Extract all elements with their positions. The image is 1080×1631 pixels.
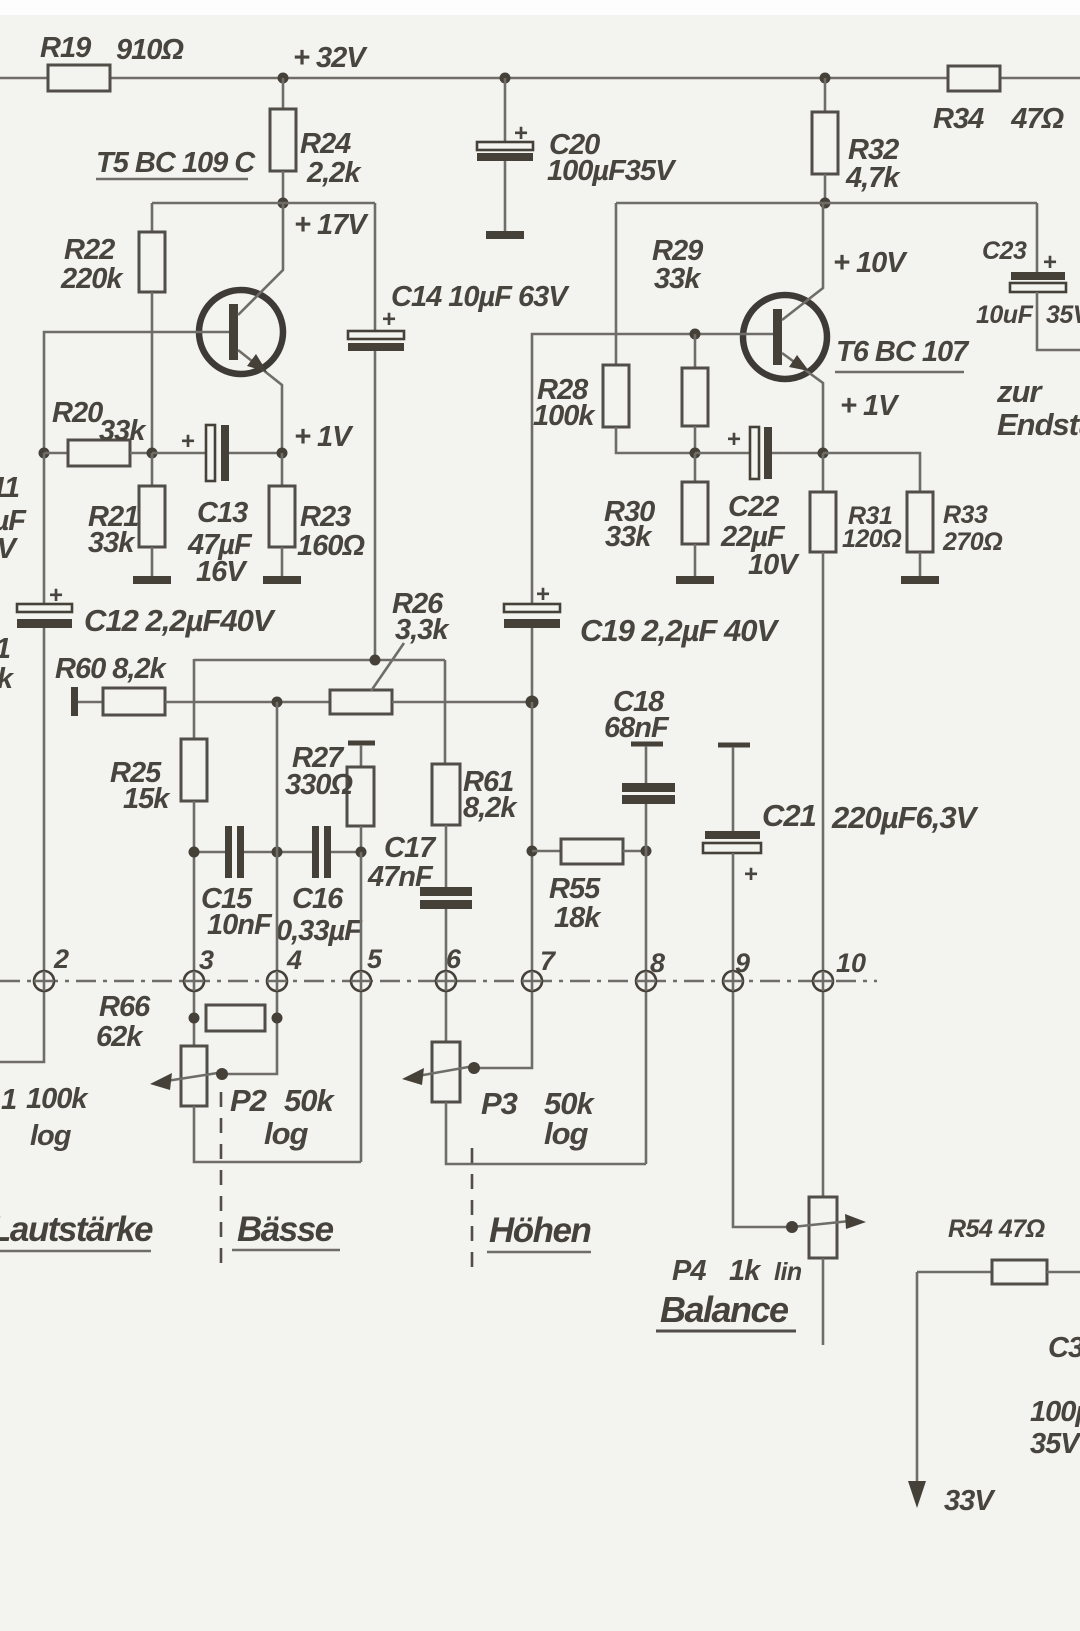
resistor R55 xyxy=(532,850,561,853)
node T6 base/R29 xyxy=(690,329,701,340)
ground R30 xyxy=(676,576,714,584)
resistor R23 xyxy=(281,453,284,486)
svg-text:270Ω: 270Ω xyxy=(942,528,1002,556)
svg-text:C23: C23 xyxy=(982,237,1027,265)
connector 10 xyxy=(813,971,833,991)
svg-text:100µ: 100µ xyxy=(1030,1396,1080,1428)
svg-text:R22: R22 xyxy=(64,234,115,266)
svg-text:+ 10V: + 10V xyxy=(833,247,908,279)
resistor R28 drop from +10V wire xyxy=(615,203,618,365)
svg-text:C32: C32 xyxy=(1048,1332,1080,1364)
wire tone main run xyxy=(165,701,330,704)
resistor R24 xyxy=(270,109,296,171)
node rail/C20 xyxy=(500,73,511,84)
wire C14 bottom long drop xyxy=(374,351,377,660)
node emitter +1V right xyxy=(818,448,829,459)
svg-text:+: + xyxy=(181,428,195,455)
svg-text:C14 10µF 63V: C14 10µF 63V xyxy=(391,281,570,313)
resistor R31 long drop to P4 xyxy=(822,453,825,492)
wire C15/C16 row xyxy=(194,851,361,854)
svg-text:T5 BC 109 C: T5 BC 109 C xyxy=(96,147,256,179)
node rail/R24 xyxy=(278,73,289,84)
svg-text:11: 11 xyxy=(0,472,19,504)
wire C12 down to P1 exit xyxy=(0,628,44,1062)
capacitor C21 xyxy=(732,747,735,831)
svg-text:33k: 33k xyxy=(605,521,653,553)
wire x277 drop to P2 wiper xyxy=(222,702,277,1074)
label R34 47ohm xyxy=(948,66,1000,91)
node C14/branch xyxy=(370,655,381,666)
resistor R25 xyxy=(181,739,207,801)
capacitor C20 xyxy=(504,78,507,143)
svg-text:10V: 10V xyxy=(748,549,800,581)
svg-text:R60 8,2k: R60 8,2k xyxy=(55,653,168,685)
mech dashed P3 xyxy=(471,1148,474,1272)
capacitor C18 xyxy=(645,746,648,783)
svg-text:C16: C16 xyxy=(292,883,344,915)
svg-text:50k: 50k xyxy=(284,1083,335,1118)
svg-text:35V: 35V xyxy=(1030,1428,1080,1460)
svg-text:+: + xyxy=(49,582,63,609)
terminal R60 input bar xyxy=(71,687,78,716)
svg-text:R19: R19 xyxy=(40,32,91,64)
capacitor C17 xyxy=(420,887,472,896)
wire R22 top stem xyxy=(151,203,154,232)
wire +10V horizontal xyxy=(616,202,1037,205)
svg-text:+ 1V: + 1V xyxy=(840,390,900,422)
svg-text:7: 7 xyxy=(540,946,557,976)
svg-text:33V: 33V xyxy=(944,1485,996,1517)
resistor R21 xyxy=(151,453,154,486)
svg-text:C13: C13 xyxy=(197,497,248,529)
svg-text:Endstufe: Endstufe xyxy=(997,407,1080,442)
svg-text:5: 5 xyxy=(367,944,383,974)
terminal C21 top bar xyxy=(718,743,750,748)
node +17V xyxy=(278,198,289,209)
svg-text:log: log xyxy=(30,1120,72,1152)
svg-text:33k: 33k xyxy=(88,527,136,559)
mech dashed P2 xyxy=(220,1092,223,1272)
terminal C18 top bar xyxy=(631,742,663,747)
node +10V xyxy=(820,198,831,209)
capacitor C16 xyxy=(312,826,319,878)
svg-text:2: 2 xyxy=(53,944,69,974)
wire C14 riser from +17V node xyxy=(374,203,377,333)
node main/x277 xyxy=(272,697,283,708)
node R66 left xyxy=(189,1013,200,1024)
connector 8 xyxy=(636,971,656,991)
svg-text:R20: R20 xyxy=(52,397,103,429)
resistor R66 xyxy=(206,1005,265,1031)
svg-text:R24: R24 xyxy=(300,128,351,160)
svg-text:C21: C21 xyxy=(762,798,816,833)
resistor R22 xyxy=(139,232,165,292)
connector 9 xyxy=(723,971,743,991)
resistor R27 xyxy=(360,745,363,767)
wire +32V main rail xyxy=(0,77,1080,80)
svg-text:zur: zur xyxy=(996,374,1043,409)
svg-text:T6 BC 107: T6 BC 107 xyxy=(836,336,970,368)
svg-text:8,2k: 8,2k xyxy=(463,792,518,824)
svg-text:10uF: 10uF xyxy=(976,301,1034,329)
svg-text:C22: C22 xyxy=(728,491,779,523)
wire R24 top stem xyxy=(282,78,285,109)
terminal R27 top bar xyxy=(348,741,375,746)
svg-text:100k: 100k xyxy=(26,1083,89,1115)
svg-text:6: 6 xyxy=(446,944,462,974)
svg-text:C19 2,2µF 40V: C19 2,2µF 40V xyxy=(580,613,779,648)
wire +17V node horizontal xyxy=(152,202,375,205)
wire upper branch y660 xyxy=(194,659,445,662)
svg-text:Balance: Balance xyxy=(660,1289,789,1330)
connector 4 xyxy=(267,971,287,991)
wire P2 bottom rail xyxy=(194,1106,361,1162)
svg-text:C17: C17 xyxy=(384,832,437,864)
svg-text:0,33µF: 0,33µF xyxy=(276,915,363,947)
svg-text:+ 17V: + 17V xyxy=(294,209,369,241)
svg-text:R66: R66 xyxy=(99,991,151,1023)
capacitor C15 xyxy=(225,826,232,878)
svg-text:Bässe: Bässe xyxy=(237,1210,334,1249)
transistor T6 xyxy=(743,203,827,453)
svg-text:100µF35V: 100µF35V xyxy=(547,155,677,187)
wire T6 base with C19 drop xyxy=(532,334,773,605)
svg-text:4,7k: 4,7k xyxy=(845,162,901,194)
potentiometer P3 xyxy=(432,1042,460,1102)
node R20/R21/C13 xyxy=(147,448,158,459)
svg-text:1: 1 xyxy=(0,633,10,665)
capacitor C19 xyxy=(504,604,560,612)
wire R24 bottom stem xyxy=(282,171,285,203)
svg-text:10nF: 10nF xyxy=(207,909,273,941)
resistor R20 xyxy=(44,452,68,455)
capacitor C14 xyxy=(348,331,404,339)
potentiometer P4 xyxy=(809,1197,837,1258)
wire x531 node drop xyxy=(474,702,532,1068)
ground C20 xyxy=(486,231,524,239)
svg-text:+ 1V: + 1V xyxy=(294,421,354,453)
capacitor C22 xyxy=(695,452,750,455)
svg-text:33k: 33k xyxy=(99,415,147,447)
svg-text:15k: 15k xyxy=(123,783,171,815)
node emitter row left xyxy=(690,448,701,459)
svg-text:P4: P4 xyxy=(672,1255,706,1287)
resistor R33 xyxy=(823,453,920,492)
svg-text:62k: 62k xyxy=(96,1021,144,1053)
connector 5 xyxy=(351,971,371,991)
wire node to C12 xyxy=(43,453,46,605)
svg-text:+: + xyxy=(744,861,758,888)
wire dash-dot connector line xyxy=(0,980,877,982)
capacitor C12 xyxy=(17,604,72,612)
svg-text:3: 3 xyxy=(199,945,214,975)
svg-text:R55: R55 xyxy=(549,873,601,905)
resistor R61 hanging from branch xyxy=(444,660,447,764)
svg-text:Höhen: Höhen xyxy=(489,1211,591,1250)
wire P3 bottom rail xyxy=(446,1102,646,1164)
svg-text:lin: lin xyxy=(774,1258,802,1286)
svg-text:log: log xyxy=(264,1116,309,1151)
wire x361 drop to P2 rail xyxy=(360,852,363,1162)
wire R22 bottom to emitter row xyxy=(151,292,154,453)
svg-text:16V: 16V xyxy=(196,556,248,588)
svg-text:+: + xyxy=(727,426,741,453)
connector 6 xyxy=(436,971,456,991)
svg-text:68nF: 68nF xyxy=(604,712,670,744)
svg-text:2,2k: 2,2k xyxy=(306,157,362,189)
svg-text:R23: R23 xyxy=(300,501,351,533)
capacitor C23 xyxy=(1036,203,1039,273)
svg-text:+: + xyxy=(514,120,528,147)
svg-text:+: + xyxy=(1043,249,1057,276)
svg-text:P3: P3 xyxy=(481,1086,518,1121)
svg-text:220µF6,3V: 220µF6,3V xyxy=(831,800,979,835)
connector 3 xyxy=(184,971,204,991)
wire T5 base xyxy=(44,332,229,453)
svg-text:4: 4 xyxy=(286,945,302,975)
resistor R26 xyxy=(330,690,392,714)
svg-text:910Ω: 910Ω xyxy=(116,34,184,66)
svg-text:C12 2,2µF40V: C12 2,2µF40V xyxy=(84,603,276,638)
svg-text:3,3k: 3,3k xyxy=(395,614,450,646)
resistor R60 xyxy=(78,701,103,704)
svg-text:9: 9 xyxy=(735,948,750,978)
node C18/R55 xyxy=(641,846,652,857)
ground R23 xyxy=(263,576,301,584)
wire 33V drop with arrow xyxy=(916,1272,919,1484)
ground R21 xyxy=(133,576,171,584)
node rail/R32 xyxy=(820,73,831,84)
potentiometer P2 xyxy=(181,1046,207,1106)
node R55 left xyxy=(527,846,538,857)
svg-text:+: + xyxy=(536,581,550,608)
svg-text:R33: R33 xyxy=(943,501,988,529)
resistor R29 xyxy=(694,334,697,368)
svg-text:18k: 18k xyxy=(554,902,602,934)
resistor R19 xyxy=(48,65,110,91)
svg-text:100k: 100k xyxy=(533,400,596,432)
svg-text:R54 47Ω: R54 47Ω xyxy=(948,1215,1045,1243)
ground R33 xyxy=(901,576,939,584)
node base-row left xyxy=(39,448,50,459)
svg-text:120Ω: 120Ω xyxy=(842,525,901,553)
svg-text:+ 32V: + 32V xyxy=(293,42,368,74)
transistor T5 xyxy=(199,203,283,453)
connector 2 xyxy=(34,971,54,991)
resistor R30 xyxy=(694,453,697,482)
svg-text:33k: 33k xyxy=(654,263,702,295)
svg-text:8: 8 xyxy=(650,948,665,978)
connector 7 xyxy=(522,971,542,991)
node emitter +1V left xyxy=(277,448,288,459)
svg-text:10: 10 xyxy=(836,948,866,978)
svg-text:1k: 1k xyxy=(729,1255,762,1287)
svg-text:160Ω: 160Ω xyxy=(297,530,365,562)
svg-text:220k: 220k xyxy=(60,263,124,295)
resistor R32 xyxy=(824,78,827,112)
svg-text:47nF: 47nF xyxy=(367,861,434,893)
svg-text:log: log xyxy=(544,1116,589,1151)
svg-text:Lautstärke: Lautstärke xyxy=(0,1210,153,1249)
node main/C19 xyxy=(526,696,539,709)
svg-text:R34 47Ω: R34 47Ω xyxy=(933,103,1064,135)
svg-text:P2: P2 xyxy=(230,1083,267,1118)
svg-text:1: 1 xyxy=(1,1084,16,1116)
capacitor C13 xyxy=(152,452,206,455)
node row dots xyxy=(189,847,200,858)
svg-text:330Ω: 330Ω xyxy=(285,769,353,801)
svg-text:35V: 35V xyxy=(1046,301,1080,329)
node R66 right xyxy=(272,1013,283,1024)
wire C18 drop to P3 rail xyxy=(645,851,648,1164)
resistor R54 xyxy=(917,1271,992,1274)
